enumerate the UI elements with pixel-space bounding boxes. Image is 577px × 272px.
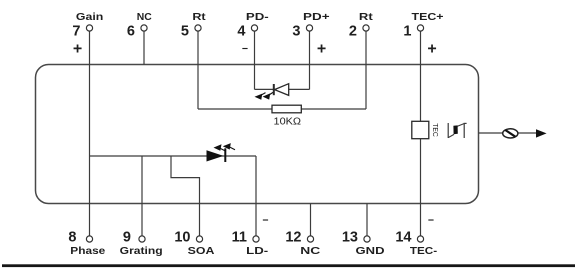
svg-text:−: − [428,215,434,227]
laser diode LD [207,143,236,162]
wire laser anode net horizontal [90,155,257,157]
TEC module [412,121,440,138]
svg-text:4: 4 [237,24,245,40]
svg-text:11: 11 [232,230,247,246]
svg-text:PD+: PD+ [303,12,330,23]
svg-text:+: + [317,41,326,58]
pin 3 (PD+) [292,12,329,58]
svg-text:10KΩ: 10KΩ [274,115,302,127]
pin 11 (LD-) [232,215,269,257]
wire pin10 SOA jog [171,156,200,236]
pin 2 (Rt) [349,12,374,40]
svg-text:5: 5 [181,24,189,40]
optical isolator lens [503,129,518,138]
svg-text:7: 7 [72,24,80,40]
resistor 10KOhm [272,105,301,127]
svg-text:9: 9 [123,230,131,246]
svg-text:Gain: Gain [76,12,103,23]
svg-text:Rt: Rt [359,12,374,23]
svg-text:TEC: TEC [431,123,440,137]
pin 13 (GND) [342,230,385,258]
wire pin6 stub [143,31,145,64]
pin 7 (Gain) [72,12,103,58]
svg-text:12: 12 [285,230,301,246]
wire resistor net horizontal [198,108,366,110]
package outline (14-pin butterfly module body) [36,65,479,204]
wire pin11 laser cathode [255,156,257,236]
svg-text:GND: GND [356,246,385,257]
pin 5 (Rt) [181,12,207,40]
wire pin1 to TEC to pin14 [420,31,422,236]
svg-text:3: 3 [292,24,300,40]
wire pin7-pin8 vertical [89,31,91,236]
svg-text:SOA: SOA [188,246,215,257]
svg-text:+: + [427,41,436,58]
svg-text:10: 10 [174,230,190,246]
output arrow [536,129,547,137]
pin 12 (NC) [285,230,320,258]
thermistor / laser chip icon [448,123,466,138]
wire pin12 stub [310,204,312,236]
svg-text:2: 2 [349,24,357,40]
svg-text:PD-: PD- [246,12,269,23]
svg-text:TEC+: TEC+ [412,12,444,23]
pin 10 (SOA) [174,230,214,258]
pin 6 (NC) [127,12,152,40]
svg-text:TEC-: TEC- [410,246,437,257]
svg-text:13: 13 [342,230,358,246]
svg-text:−: − [262,215,268,227]
svg-text:Grating: Grating [120,246,163,257]
svg-text:Rt: Rt [192,12,206,23]
pin 9 (Grating) [120,230,163,258]
wire photodiode net horizontal [255,88,310,90]
pin 8 (Phase) [68,230,105,258]
svg-text:Phase: Phase [70,246,106,257]
wire optical output [479,132,538,134]
svg-text:NC: NC [137,12,152,23]
wire pin5 to resistor net [197,31,199,109]
wire pin3 to photodiode net [309,31,311,89]
pin 4 (PD-) [237,12,268,55]
svg-text:−: − [242,43,248,55]
wire pin13 stub [366,204,368,236]
svg-text:6: 6 [127,24,135,40]
wire pin9 to laser net [141,156,143,236]
photodiode PD [255,84,289,100]
svg-text:14: 14 [395,230,411,246]
svg-text:8: 8 [68,230,76,246]
pin 1 (TEC+) [403,12,443,58]
wire pin4 to photodiode net [254,31,256,89]
pin 14 (TEC-) [395,215,437,257]
svg-text:LD-: LD- [246,246,268,257]
svg-text:NC: NC [300,246,320,257]
svg-text:1: 1 [403,24,411,40]
wire pin2 to resistor net [365,31,367,109]
svg-text:+: + [73,41,82,58]
